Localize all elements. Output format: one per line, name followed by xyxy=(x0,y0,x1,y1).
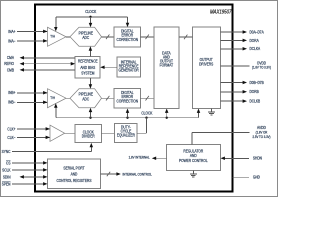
svg-text:CORRECTION: CORRECTION xyxy=(117,37,139,42)
svg-text:(1.8V TO 3.3V): (1.8V TO 3.3V) xyxy=(252,66,271,70)
svg-text:CMA: CMA xyxy=(7,55,14,60)
svg-text:AND BIAS: AND BIAS xyxy=(80,65,95,70)
svg-text:SPEN: SPEN xyxy=(2,181,11,186)
svg-text:CLOCK: CLOCK xyxy=(141,111,152,116)
svg-text:SYNC: SYNC xyxy=(2,149,11,154)
svg-text:GENERATOR: GENERATOR xyxy=(118,68,138,73)
svg-text:EQUALIZER: EQUALIZER xyxy=(117,133,135,138)
svg-text:POWER CONTROL: POWER CONTROL xyxy=(179,158,208,163)
svg-text:DCLKB: DCLKB xyxy=(250,99,261,104)
svg-text:AND: AND xyxy=(71,172,78,177)
svg-text:GND: GND xyxy=(253,175,260,180)
svg-text:ADC: ADC xyxy=(82,35,89,40)
svg-text:CORRECTION: CORRECTION xyxy=(117,99,139,104)
svg-text:SYSTEM: SYSTEM xyxy=(81,71,95,76)
svg-text:REFIO: REFIO xyxy=(4,61,14,66)
svg-text:DCLKA: DCLKA xyxy=(250,46,261,51)
svg-text:SHDN: SHDN xyxy=(253,156,262,161)
svg-text:2.5V TO 3.3V): 2.5V TO 3.3V) xyxy=(253,135,271,139)
svg-text:INB−: INB− xyxy=(8,100,16,105)
svg-text:MAX19507: MAX19507 xyxy=(210,9,232,15)
svg-text:DRIVERS: DRIVERS xyxy=(199,61,213,66)
svg-text:T/H: T/H xyxy=(50,96,55,100)
svg-text:1.8V INTERNAL: 1.8V INTERNAL xyxy=(129,156,150,160)
svg-text:DORB: DORB xyxy=(250,89,259,94)
svg-text:SDIN: SDIN xyxy=(3,174,11,179)
svg-text:INA−: INA− xyxy=(8,38,16,43)
svg-text:OVDD: OVDD xyxy=(257,60,266,65)
svg-text:CONTROL REGISTERS: CONTROL REGISTERS xyxy=(56,178,91,183)
svg-text:DORA: DORA xyxy=(250,38,259,43)
svg-text:D0A–D7A: D0A–D7A xyxy=(250,29,264,34)
svg-text:(1.8V OR: (1.8V OR xyxy=(256,131,268,135)
svg-text:SCLK: SCLK xyxy=(2,167,11,172)
svg-text:AVDD: AVDD xyxy=(257,125,266,130)
svg-text:CLOCK: CLOCK xyxy=(85,9,96,14)
svg-text:CMB: CMB xyxy=(7,67,14,72)
svg-text:INB+: INB+ xyxy=(8,90,16,95)
svg-text:SERIAL PORT: SERIAL PORT xyxy=(63,166,85,171)
svg-text:FORMAT: FORMAT xyxy=(160,62,174,67)
svg-text:INTERNAL CONTROL: INTERNAL CONTROL xyxy=(123,173,152,177)
svg-text:T/H: T/H xyxy=(50,35,55,39)
svg-text:REFERENCE: REFERENCE xyxy=(78,59,98,64)
svg-text:CS: CS xyxy=(6,160,11,165)
svg-text:D0B–D7B: D0B–D7B xyxy=(250,80,264,85)
svg-text:CLK−: CLK− xyxy=(7,135,16,140)
svg-text:ADC: ADC xyxy=(82,96,89,101)
svg-text:INA+: INA+ xyxy=(8,29,16,34)
svg-text:CLK+: CLK+ xyxy=(7,126,16,131)
svg-text:DIVIDER: DIVIDER xyxy=(82,134,95,139)
